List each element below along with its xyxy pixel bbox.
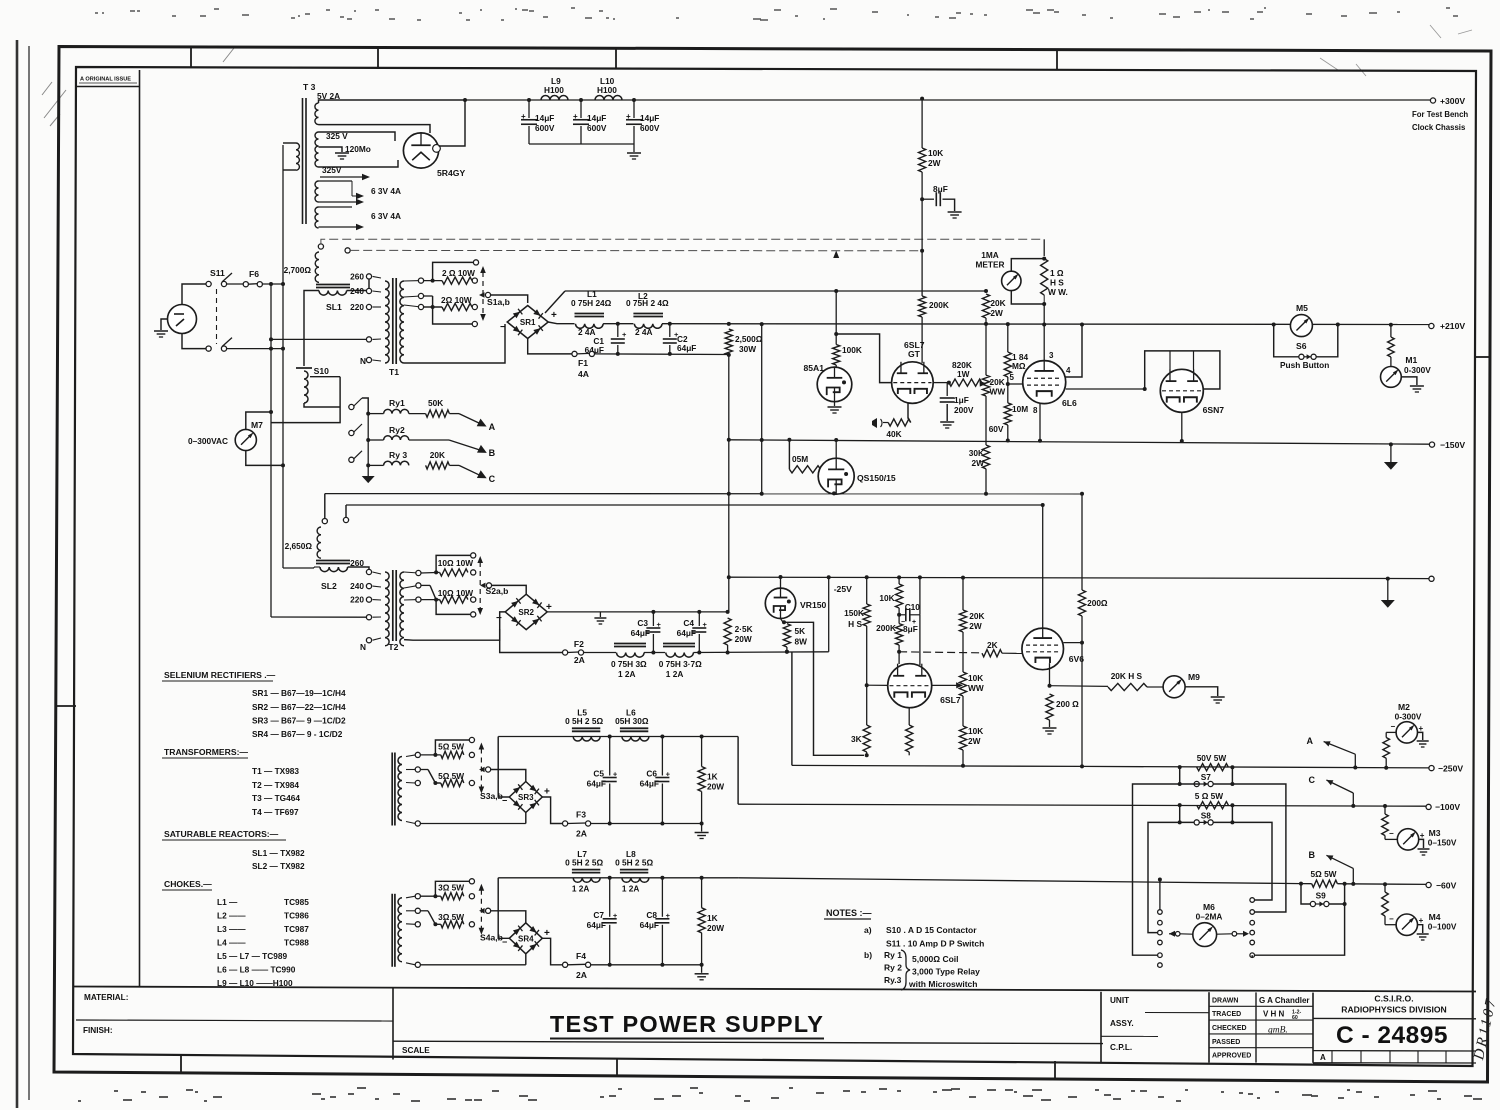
svg-text:20K: 20K [990,298,1005,308]
wire T2 secondary bottom to SR2 [404,629,500,640]
svg-text:200 Ω: 200 Ω [1056,699,1079,709]
svg-text:CHECKED: CHECKED [1212,1025,1247,1032]
wire 100K to 85A1 [835,365,837,367]
svg-text:2A: 2A [576,970,587,980]
terminal -60V [1426,882,1431,887]
svg-text:1 Ω: 1 Ω [1050,268,1064,278]
capacitor C1 64uF [617,324,619,337]
transformer T1 primary winding [385,281,389,363]
capacitor 14uF 600V second [579,98,583,102]
wire L4 to -25V node [693,651,828,654]
svg-text:SR3 — B67— 9 —1C/D2: SR3 — B67— 9 —1C/D2 [252,716,346,726]
wire SL2 to T2 tap [348,567,369,575]
svg-text:TEST POWER SUPPLY: TEST POWER SUPPLY [550,1011,824,1037]
svg-text:NOTES :—: NOTES :— [826,908,872,918]
wire SR1 plus to L1 via rail [548,322,574,324]
svg-text:1MA: 1MA [981,250,999,260]
wire SR2 plus output grounded [547,611,727,613]
svg-text:200Ω: 200Ω [1087,598,1108,608]
svg-text:SATURABLE REACTORS:—: SATURABLE REACTORS:— [164,829,279,839]
svg-text:T1 — TX983: T1 — TX983 [252,766,299,776]
wire bus A to T1 tap [271,338,366,340]
svg-text:2A: 2A [574,655,585,665]
svg-text:G A Chandler: G A Chandler [1259,996,1310,1005]
wire bridge bottom to transformer SR3row [525,813,527,824]
wire SR1 minus through F1 to common bus [528,339,572,354]
wire 6SN7 plate tie box [1145,351,1220,389]
svg-text:1μF: 1μF [954,395,969,405]
wire 6SL7 lower cathode resistor [908,708,910,725]
svg-text:−: − [1389,829,1394,838]
svg-text:+: + [1420,831,1425,840]
svg-text:0 5H 2 5Ω: 0 5H 2 5Ω [565,716,603,726]
T2 secondary taps [404,572,418,573]
wire QS150 cathode down [835,493,837,495]
SL1 second terminal to feedback line lower [345,248,350,253]
wire 5V bottom lead [319,125,431,133]
wire L1 to L2 [603,323,633,325]
svg-text:260: 260 [350,272,364,282]
svg-text:C4: C4 [683,618,694,628]
svg-text:1K: 1K [707,913,718,923]
svg-text:0 5H 2 5Ω: 0 5H 2 5Ω [615,857,653,867]
svg-text:H S: H S [848,619,862,629]
svg-text:4A: 4A [578,369,589,379]
frame centering tick right [1476,356,1491,358]
wire M4 ground [1418,925,1423,933]
svg-text:WW: WW [990,387,1006,397]
wire vertical link at 761 [760,322,764,326]
svg-text:+: + [703,620,708,629]
tube QS150/15 [818,458,854,494]
capacitor C8 64uF [661,878,663,917]
bridge rectifier SR3 [509,782,542,813]
svg-text:3: 3 [1049,351,1054,360]
svg-text:RADIOPHYSICS DIVISION: RADIOPHYSICS DIVISION [1341,1004,1447,1014]
wire 6L6 plate pin3 [1043,325,1045,361]
mains plug symbol [168,305,197,334]
svg-text:MΩ: MΩ [1012,361,1026,371]
svg-text:SR4: SR4 [518,935,534,944]
wire mains bus A vertical [270,284,272,617]
svg-text:B: B [1309,850,1316,860]
svg-text:H100: H100 [544,85,564,95]
wire 325V bottom lead to 5R4GY [319,160,399,167]
terminal +210V [1429,323,1434,328]
svg-text:20W: 20W [707,782,724,792]
svg-text:10K: 10K [928,148,943,158]
svg-text:600V: 600V [535,123,555,133]
revision column A ORIGINAL ISSUE [139,70,141,987]
svg-text:3Ω 5W: 3Ω 5W [438,883,464,893]
svg-text:A ORIGINAL ISSUE: A ORIGINAL ISSUE [80,77,131,83]
svg-text:0–300VAC: 0–300VAC [188,436,228,446]
svg-text:APPROVED: APPROVED [1212,1053,1251,1060]
transformer T3 winding 5V 2A [315,103,319,125]
wire SL1 winding left to S10 coil [304,291,319,367]
wire +300V rail [465,99,1433,101]
svg-text:60V: 60V [989,424,1004,434]
svg-text:VR150: VR150 [800,600,826,610]
svg-text:b): b) [864,950,872,960]
wire bridge plus to fuse SR4row [542,938,562,965]
svg-text:M7: M7 [251,420,263,430]
svg-text:SR1: SR1 [520,318,536,327]
switch matrix right column contacts [1250,898,1255,903]
svg-text:200V: 200V [954,405,974,415]
capacitor C7 64uF [609,878,611,917]
svg-text:1W: 1W [957,369,970,379]
svg-text:L6 — L8 —— TC990: L6 — L8 —— TC990 [217,965,296,975]
SL1 core bars [316,284,350,286]
wire regulator link line upper [325,493,1082,495]
wire 85A1 grid to 6SL7 [836,334,892,383]
wire C10 line to 6SL7 right plate [919,615,921,665]
SL2 main winding [320,567,348,572]
tube 6V6 [1022,628,1064,670]
svg-text:ASSY.: ASSY. [1110,1019,1134,1028]
wire grid node y384 [986,383,1008,385]
transformer T3 winding 6.3V first [315,181,318,202]
svg-text:WW: WW [968,683,984,693]
svg-text:2,650Ω: 2,650Ω [285,541,313,551]
svg-text:8W: 8W [795,637,808,647]
SL2 core bars [316,560,350,562]
scale box [393,1041,1103,1043]
svg-text:+: + [544,928,550,939]
selector arm B [449,440,481,450]
svg-text:-25V: -25V [834,584,852,594]
wire 6.3V leads with arrows [319,180,353,182]
svg-text:A: A [1320,1053,1326,1062]
svg-text:64μF: 64μF [587,920,606,930]
wire matrix inner box left [1148,822,1180,932]
wire 6SL7 lower grid right to pot [932,684,958,686]
svg-text:M5: M5 [1296,303,1308,313]
svg-text:M1: M1 [1405,355,1417,365]
transformer T3 winding 6.3V second [315,207,318,228]
svg-text:220: 220 [350,595,364,605]
svg-text:6 3V 4A: 6 3V 4A [371,211,401,221]
wire matrix to -60V rail [1251,955,1253,957]
svg-text:UNIT: UNIT [1110,996,1129,1005]
wire VR150 cathode to 5K [781,619,784,623]
wire bypass upper 10ohm [436,555,471,572]
transformer T2 primary winding [385,572,389,646]
wire M1 to ground [1401,377,1417,385]
svg-text:64μF: 64μF [677,343,696,353]
transformer T3 core [302,98,304,224]
svg-text:600V: 600V [587,123,607,133]
svg-text:14μF: 14μF [640,113,659,123]
svg-text:SL2 — TX982: SL2 — TX982 [252,861,305,871]
svg-text:−: − [500,322,506,333]
svg-text:−100V: −100V [1435,802,1460,812]
tube 6SL7 lower [888,664,932,708]
svg-text:2A: 2A [576,829,587,839]
selector S2ab arrows [479,562,481,609]
svg-text:10Ω 10W: 10Ω 10W [438,588,473,598]
svg-text:50K: 50K [428,398,443,408]
svg-text:0 75H 2 4Ω: 0 75H 2 4Ω [626,298,669,308]
capacitor 8uF with ground [920,197,924,201]
wire S2 wiper to SR2 top [492,585,527,594]
wire S10 contacts to relay bus [362,398,368,414]
wire bus B to SL2 [283,567,314,569]
wire -150V ground stub [1389,442,1393,446]
svg-text:S3a,b: S3a,b [480,791,503,801]
wire matrix outer box left [1133,784,1180,955]
wire 200K to 6SL7 plate [921,317,923,363]
arrow lead 325V [320,176,362,178]
bridge rectifier SR2 [505,594,547,629]
svg-text:6SL7: 6SL7 [940,695,961,705]
svg-text:2,500Ω: 2,500Ω [735,334,763,344]
T4 taps SR3row [415,752,420,757]
svg-text:S11: S11 [210,268,225,278]
svg-text:4: 4 [1066,366,1071,375]
tube 6L6 series regulator [1023,361,1066,404]
svg-text:2W: 2W [928,158,941,168]
wire top rail SR3row [498,736,738,738]
wire F6 to bus A [227,283,244,285]
wire grid dash line to 2K [899,652,980,653]
svg-text:S9: S9 [1316,891,1327,901]
wire top rail corner SR3row [498,737,509,798]
meter M3 multiplier resistor [1383,804,1387,808]
svg-text:8: 8 [1033,406,1038,415]
svg-text:64μF: 64μF [640,920,659,930]
svg-text:−: − [1391,722,1396,731]
scan noise left edge vertical lines [16,40,19,1108]
wire 1ohm to +210V rail junction [1043,304,1045,325]
svg-text:2W: 2W [972,458,985,468]
wire feedback sense to 1MA node [1043,239,1045,256]
svg-text:Push Button: Push Button [1280,360,1329,370]
wire wiper to bridge SR4row [491,911,526,923]
wire grid bus to 6SN7 [1066,388,1145,390]
svg-text:0 75H 24Ω: 0 75H 24Ω [571,298,612,308]
capacitor 1uF 200V with ground [948,383,950,395]
wire M3 ground [1419,839,1424,848]
svg-text:T2 — TX984: T2 — TX984 [252,780,299,790]
wire mains bus B vertical [282,145,284,284]
svg-text:S10: S10 [314,366,330,376]
wire top rail SR4row [498,877,738,879]
svg-text:10Ω 10W: 10Ω 10W [438,558,473,568]
svg-text:100K: 100K [842,345,862,355]
terminal -250V [1429,766,1434,771]
wire wiper to bridge SR3row [491,770,526,782]
svg-text:3,000 Type Relay: 3,000 Type Relay [912,967,980,977]
svg-text:240: 240 [350,286,364,296]
svg-text:+: + [1419,724,1424,733]
capacitor 14uF 600V third [632,98,636,102]
wire raw positive rail [565,290,986,292]
svg-text:N: N [360,356,366,366]
capacitor C5 64uF [609,737,611,776]
svg-text:C3: C3 [637,618,648,628]
svg-text:S7: S7 [1201,772,1212,782]
svg-text:L9 — L10 ——H100: L9 — L10 ——H100 [217,978,293,988]
svg-text:C10: C10 [905,602,921,612]
svg-text:TC987: TC987 [284,924,309,934]
choke L3 [584,652,616,654]
wire QS150 anode to -150V rail [835,440,837,458]
svg-text:For Test Bench: For Test Bench [1412,110,1468,119]
wire T1 secondary bottom to SR1 [404,324,505,363]
svg-text:6L6: 6L6 [1062,398,1077,408]
material finish block [73,987,1476,992]
wire left column to -60V rail [1159,880,1161,910]
S10 auxiliary contacts [349,404,354,409]
wire bus A to T2 tap [271,616,366,618]
capacitor C6 64uF [661,737,663,776]
svg-text:TC988: TC988 [284,938,309,948]
svg-text:F1: F1 [578,358,588,368]
svg-text:3K: 3K [851,734,862,744]
svg-text:40K: 40K [886,429,901,439]
svg-text:85A1: 85A1 [803,363,824,373]
selector S2 wiper [480,583,486,589]
wire SR3 row output corner to -100V rail [737,737,739,805]
svg-text:S6: S6 [1296,341,1307,351]
svg-text:F6: F6 [249,269,259,279]
svg-text:5: 5 [1010,373,1015,382]
frame centering tick bottom 2 [616,1058,618,1077]
svg-text:C.S.I.R.O.: C.S.I.R.O. [1374,994,1413,1004]
wire -25V bus [729,577,1432,578]
svg-text:10K: 10K [968,726,983,736]
svg-text:10K: 10K [968,673,983,683]
svg-text:SL2: SL2 [321,581,337,591]
svg-text:M3: M3 [1429,828,1441,838]
svg-text:240: 240 [350,581,364,591]
T2 primary taps [366,569,371,574]
svg-text:Ry2: Ry2 [389,425,405,435]
wire bypass upper with terminal [433,262,474,280]
svg-text:0–150V: 0–150V [1428,838,1457,848]
svg-text:SR2: SR2 [518,608,534,617]
wire 6SN7 cathode to -150V rail [1181,412,1183,441]
svg-text:S10 . A D 15 Contactor: S10 . A D 15 Contactor [886,925,977,935]
wire 1MA meter parallel branch [1011,259,1044,272]
wire L2 to +210V rail [662,323,1431,326]
svg-text:05M: 05M [792,454,808,464]
meter M4 multiplier resistor [1383,882,1387,886]
svg-text:C7: C7 [593,910,604,920]
bridge rectifier SR4 [509,923,542,954]
selector S4a,b arrows [480,890,482,929]
T1 secondary taps [404,280,421,282]
switch S11 mechanical link [216,289,218,344]
svg-text:0–100V: 0–100V [1428,922,1457,932]
svg-text:L2 ——: L2 —— [217,911,246,921]
svg-text:F4: F4 [576,951,586,961]
switch S11 lower pole [206,346,211,351]
svg-text:+: + [1419,916,1424,925]
frame centering tick top 1 [190,47,192,68]
svg-text:5R4GY: 5R4GY [437,168,465,178]
frame centering tick top 2 [377,48,379,69]
svg-text:1 2A: 1 2A [622,883,640,893]
frame centering tick top 4 [1056,50,1058,71]
svg-text:0–2MA: 0–2MA [1196,912,1223,922]
wire bridge bottom to transformer SR4row [525,954,527,965]
svg-text:C6: C6 [646,769,657,779]
svg-text:F3: F3 [576,810,586,820]
transformer T3 primary winding [296,143,299,170]
wire -150V rail [729,440,1432,444]
switch matrix left rotor arrow [1175,932,1180,937]
wire 6V6 cathode [1049,663,1051,686]
wire matrix outer box right [1232,784,1286,912]
svg-text:0 5H 2 5Ω: 0 5H 2 5Ω [565,857,603,867]
wire lower regulator bottom bus to -250V rail [792,765,1082,766]
svg-text:SCALE: SCALE [402,1046,430,1055]
scan noise bottom edge [78,1088,1482,1101]
svg-text:2 4A: 2 4A [635,327,653,337]
svg-text:Ry1: Ry1 [389,398,405,408]
wire 5V top lead to rectifier and +300V rail [319,100,466,103]
frame centering tick left [55,705,77,707]
wire bypass upper SR4row [435,881,469,896]
svg-text:−60V: −60V [1436,881,1457,891]
svg-text:C.P.L.: C.P.L. [1110,1043,1132,1052]
svg-text:M6: M6 [1203,902,1215,912]
wire 325V top lead to 5R4GY plate [319,132,396,141]
wire main vertical link 728 from common bus [728,355,730,612]
svg-text:SR2 — B67—22—1C/H4: SR2 — B67—22—1C/H4 [252,702,346,712]
svg-text:Clock Chassis: Clock Chassis [1412,123,1466,132]
svg-text:a): a) [864,925,872,935]
svg-text:M2: M2 [1398,702,1410,712]
wire T3 primary to mains bus [283,142,296,144]
svg-text:260: 260 [350,558,364,568]
selector arm C to -100V [1326,780,1353,793]
svg-text:METER: METER [975,260,1004,270]
transformer T2 secondary winding [400,572,404,646]
wire S11 lower to bus B [227,348,283,350]
svg-text:S11 . 10 Amp D P Switch: S11 . 10 Amp D P Switch [886,939,984,949]
svg-text:0 75H 3Ω: 0 75H 3Ω [611,659,647,669]
svg-text:0-300V: 0-300V [1404,365,1431,375]
svg-text:FINISH:: FINISH: [83,1026,113,1035]
svg-text:SR4 — B67— 9 - 1C/D2: SR4 — B67— 9 - 1C/D2 [252,729,343,739]
bridge rectifier SR1 [507,306,548,339]
svg-text:+: + [573,112,578,121]
svg-text:H100: H100 [597,85,617,95]
svg-text:V H N: V H N [1263,1010,1285,1019]
frame centering tick top 3 [615,48,617,69]
svg-text:5 Ω 5W: 5 Ω 5W [1195,791,1223,801]
svg-text:−: − [1389,915,1394,924]
svg-text:2K: 2K [987,640,998,650]
capacitor C3 64uF [652,612,654,626]
tube 6SN7 [1160,369,1203,412]
svg-text:2·5K: 2·5K [735,624,753,634]
wire -100V rail [738,804,1429,806]
svg-text:S1a,b: S1a,b [487,297,510,307]
tap 120Mo with ground [319,147,343,152]
T4 taps SR4row [415,894,420,899]
svg-text:8μF: 8μF [903,624,918,634]
svg-text:SL1 — TX982: SL1 — TX982 [252,848,305,858]
svg-text:TRANSFORMERS:—: TRANSFORMERS:— [164,747,248,757]
svg-text:+: + [613,770,618,779]
wire S1 wiper to SR1 top [491,295,528,303]
svg-text:60: 60 [1292,1015,1298,1021]
